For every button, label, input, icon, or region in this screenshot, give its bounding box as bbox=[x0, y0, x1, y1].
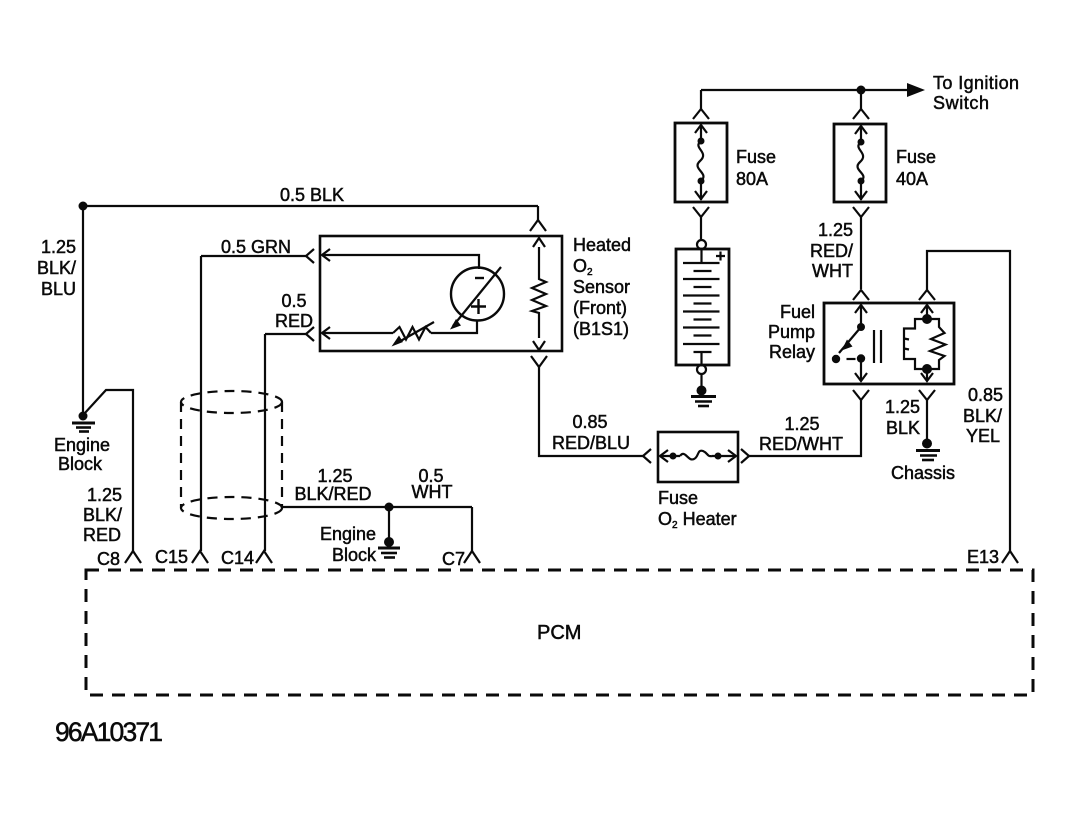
wire: drop to engine block ground bbox=[388, 507, 390, 539]
svg-text:PCM: PCM bbox=[537, 622, 581, 644]
connector chevron below relay pin 4 bbox=[919, 390, 935, 400]
battery BAT1 bbox=[676, 240, 729, 374]
connector chevron below sensor box bbox=[531, 356, 547, 367]
svg-text:To Ignition: To Ignition bbox=[933, 73, 1019, 93]
wire: fuse 80A to battery bbox=[700, 217, 702, 240]
pin arrow inside sensor box (RED, points left) bbox=[322, 327, 330, 339]
wire: 0.5 GRN vertical to C15 bbox=[200, 256, 202, 551]
svg-text:80A: 80A bbox=[736, 169, 768, 189]
component: Fuse 80A F1 bbox=[675, 123, 727, 202]
node: junction dot above fuse 40A bbox=[857, 86, 866, 95]
wire: 0.5 WHT drop to C7 bbox=[471, 507, 473, 551]
svg-text:BLU: BLU bbox=[41, 279, 76, 299]
svg-text:Block: Block bbox=[332, 545, 377, 565]
connector chevron right of fuse O2 heater bbox=[741, 449, 749, 463]
component: Fuse O2 Heater F3 bbox=[658, 432, 738, 482]
svg-text:Chassis: Chassis bbox=[891, 463, 955, 483]
label minus in cell bbox=[475, 277, 484, 279]
svg-text:RED/: RED/ bbox=[810, 241, 853, 261]
ground: engine block (left) bbox=[72, 412, 95, 432]
label 0.85 RED/BLU bbox=[552, 412, 630, 453]
connector chevron below fuse 80A bbox=[693, 207, 709, 217]
svg-text:Switch: Switch bbox=[933, 93, 989, 113]
connector chevron below relay pin 3 bbox=[853, 390, 869, 400]
label Engine Block (left) bbox=[54, 435, 110, 474]
svg-text:BLK/: BLK/ bbox=[37, 258, 76, 278]
connector chevron above sensor box bbox=[530, 220, 546, 231]
svg-text:C7: C7 bbox=[442, 549, 465, 569]
svg-text:96A10371: 96A10371 bbox=[55, 717, 163, 747]
wire: 0.5 RED horizontal bbox=[265, 333, 306, 335]
svg-text:Block: Block bbox=[58, 454, 103, 474]
label 1.25 BLK/BLU bbox=[37, 237, 76, 299]
label 1.25 RED/WHT (lower) bbox=[759, 414, 843, 454]
svg-text:Relay: Relay bbox=[769, 342, 815, 362]
svg-text:RED/BLU: RED/BLU bbox=[552, 433, 630, 453]
svg-text:BLK/: BLK/ bbox=[83, 505, 122, 525]
relay core bars bbox=[874, 330, 881, 363]
svg-text:0.5 GRN: 0.5 GRN bbox=[221, 237, 291, 257]
wire: ground branch to C8 (diagonal + horizontal + vertical) bbox=[84, 390, 133, 551]
connector chevron above fuse 80A bbox=[693, 109, 709, 119]
svg-text:Fuel: Fuel bbox=[780, 302, 815, 322]
relay coil with resistor (pin 2 branch) bbox=[904, 305, 946, 381]
label 0.5 RED bbox=[275, 291, 313, 331]
svg-text:Sensor: Sensor bbox=[573, 277, 630, 297]
label 1.25 RED/WHT bbox=[810, 220, 853, 281]
wire: 0.85 BLK/YEL from relay pin 2 top bbox=[927, 251, 1010, 551]
ground: battery ground bbox=[691, 386, 716, 407]
component: Fuel Pump Relay K1 bbox=[824, 303, 954, 384]
wire: 1.25 BLK/BLU vertical bbox=[82, 206, 84, 413]
svg-text:RED: RED bbox=[83, 525, 121, 545]
svg-text:Fuse: Fuse bbox=[658, 488, 698, 508]
pin E13 connector chevron bbox=[1002, 551, 1018, 563]
label Fuse 40A bbox=[896, 147, 936, 189]
svg-text:Engine: Engine bbox=[320, 524, 376, 544]
svg-text:Fuse: Fuse bbox=[736, 147, 776, 167]
ground: chassis bbox=[916, 439, 940, 461]
shield: dashed cylinder around GRN/RED wires bbox=[181, 391, 282, 519]
wire: 1.25 RED/WHT fuse 40A to relay bbox=[860, 217, 862, 289]
label To Ignition Switch bbox=[933, 73, 1019, 113]
svg-text:WHT: WHT bbox=[812, 261, 853, 281]
connector chevron at sensor pin (RED) bbox=[306, 327, 314, 341]
arrow through variable resistor bbox=[397, 322, 434, 343]
sensor cell circle bbox=[451, 268, 504, 321]
svg-text:1.25: 1.25 bbox=[317, 466, 352, 486]
label Fuse O2 Heater bbox=[658, 488, 737, 531]
connector chevron above fuse 40A bbox=[853, 109, 869, 119]
wire: sensor internal bottom with variable resistor bbox=[322, 320, 477, 333]
svg-text:0.85: 0.85 bbox=[968, 385, 1003, 405]
svg-text:Engine: Engine bbox=[54, 435, 110, 455]
label plus in cell bbox=[471, 299, 486, 314]
wire: 1.25 BLK/RED horizontal from shield bbox=[282, 506, 472, 508]
ground: engine block (center) bbox=[378, 537, 400, 558]
svg-text:BLK/: BLK/ bbox=[963, 406, 1002, 426]
svg-text:BLK/RED: BLK/RED bbox=[294, 484, 371, 504]
wire: 1.25 BLK relay to chassis ground bbox=[926, 400, 928, 440]
label Fuel Pump Relay bbox=[768, 302, 815, 362]
svg-text:YEL: YEL bbox=[966, 426, 1000, 446]
svg-text:C15: C15 bbox=[155, 547, 188, 567]
svg-text:O2: O2 bbox=[573, 256, 593, 278]
label Heated O2 Sensor (Front) (B1S1) bbox=[573, 235, 631, 339]
label 1.25 BLK bbox=[885, 397, 920, 438]
pin C7 connector chevron bbox=[464, 551, 480, 563]
svg-text:E13: E13 bbox=[967, 547, 999, 567]
pin C15 connector chevron bbox=[192, 551, 208, 563]
svg-text:RED: RED bbox=[275, 311, 313, 331]
connector chevron below fuse 40A bbox=[853, 207, 869, 217]
label 1.25 BLK/RED bbox=[294, 466, 371, 504]
svg-text:0.85: 0.85 bbox=[572, 412, 607, 432]
svg-text:Fuse: Fuse bbox=[896, 147, 936, 167]
wire: 0.5 GRN horizontal bbox=[201, 255, 306, 257]
svg-text:40A: 40A bbox=[896, 169, 928, 189]
heater arrow down at box bottom bbox=[533, 341, 545, 350]
svg-text:1.25: 1.25 bbox=[818, 220, 853, 240]
wire: stub above fuse 80A bbox=[700, 90, 702, 109]
wire: 0.85 RED/BLU from sensor to fuse bbox=[539, 367, 643, 456]
relay switch contact bbox=[832, 305, 867, 381]
component: Fuse 40A F2 bbox=[834, 124, 886, 202]
svg-text:WHT: WHT bbox=[412, 482, 453, 502]
label Engine Block (center) bbox=[320, 524, 377, 565]
connector chevron at sensor pin (GRN) bbox=[306, 249, 314, 263]
svg-text:C14: C14 bbox=[221, 548, 254, 568]
wire: battery to ground bbox=[700, 374, 702, 388]
label 0.85 BLK/YEL bbox=[963, 385, 1003, 446]
label Fuse 80A bbox=[736, 147, 776, 189]
resistor: sensor variable element zigzag bbox=[393, 327, 431, 340]
label 1.25 BLK/RED (C8) bbox=[83, 485, 122, 545]
svg-text:1.25: 1.25 bbox=[41, 237, 76, 257]
node: junction dot at engine block branch bbox=[385, 503, 394, 512]
svg-text:(B1S1): (B1S1) bbox=[573, 319, 629, 339]
wire: 0.5 BLK drop into sensor top bbox=[537, 206, 539, 220]
connector chevron above relay pin 2 bbox=[919, 290, 935, 300]
svg-text:Heated: Heated bbox=[573, 235, 631, 255]
connector chevron above relay pin 1 bbox=[853, 290, 869, 300]
svg-text:BLK: BLK bbox=[886, 418, 920, 438]
wire: sensor internal top to cell bbox=[322, 255, 479, 269]
svg-text:0.5 BLK: 0.5 BLK bbox=[280, 185, 344, 205]
wire: stub above fuse 40A bbox=[860, 90, 862, 109]
svg-text:1.25: 1.25 bbox=[784, 414, 819, 434]
svg-text:O2 Heater: O2 Heater bbox=[658, 509, 737, 531]
heater arrow up at box top bbox=[533, 238, 545, 247]
node: junction dot top left bbox=[79, 202, 88, 211]
svg-text:Pump: Pump bbox=[768, 322, 815, 342]
wire: 0.5 BLK horizontal top left bbox=[83, 205, 538, 207]
svg-text:1.25: 1.25 bbox=[87, 485, 122, 505]
wire: 1.25 RED/WHT relay to fuse O2 heater bbox=[749, 400, 861, 456]
svg-text:1.25: 1.25 bbox=[885, 397, 920, 417]
label 0.5 WHT bbox=[412, 466, 453, 502]
svg-text:C8: C8 bbox=[97, 549, 120, 569]
wire: 0.5 RED vertical to C14 bbox=[264, 334, 266, 551]
component: PCM dashed box bbox=[86, 570, 1033, 695]
arrow to ignition switch bbox=[907, 83, 925, 97]
pin C8 connector chevron bbox=[125, 551, 141, 563]
svg-text:(Front): (Front) bbox=[573, 298, 627, 318]
pin C14 connector chevron bbox=[256, 551, 272, 563]
pin arrow inside sensor box (GRN, points left) bbox=[322, 249, 330, 261]
component: Heated O2 Sensor box U1 bbox=[320, 236, 562, 351]
diagonal arrow through sensor cell bbox=[453, 267, 501, 326]
heater resistor R (inside sensor box right) bbox=[532, 247, 546, 338]
wire: feed to ignition switch bbox=[701, 89, 908, 91]
svg-text:RED/WHT: RED/WHT bbox=[759, 434, 843, 454]
svg-text:0.5: 0.5 bbox=[281, 291, 306, 311]
connector chevron left of fuse O2 heater bbox=[643, 449, 651, 463]
